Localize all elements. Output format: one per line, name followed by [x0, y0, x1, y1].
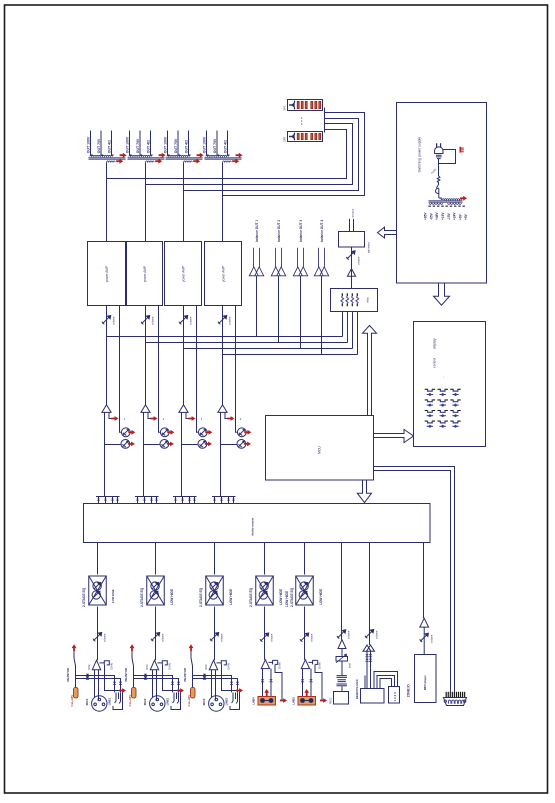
- svg-text:OUT 100V: OUT 100V: [125, 136, 129, 153]
- svg-text:LOW HIGE: LOW HIGE: [319, 589, 323, 605]
- svg-text:balance OUT 1: balance OUT 1: [255, 220, 259, 242]
- svg-text:power AMP: power AMP: [182, 266, 186, 282]
- svg-text:GAIN: GAIN: [227, 663, 231, 670]
- svg-text:LOW HIGE: LOW HIGE: [279, 589, 283, 605]
- svg-text:MCU: MCU: [318, 446, 322, 454]
- svg-text:volume: volume: [161, 633, 165, 642]
- svg-text:balance OUT 3: balance OUT 3: [299, 220, 303, 242]
- svg-text:volume: volume: [103, 633, 107, 642]
- svg-text:volume: volume: [151, 316, 155, 325]
- svg-text:2-STAGE EQ: 2-STAGE EQ: [290, 587, 294, 607]
- svg-text:volume: volume: [112, 316, 116, 325]
- svg-text:volume: volume: [375, 630, 379, 639]
- svg-text:MIC1: MIC1: [85, 698, 89, 705]
- svg-text:control: control: [432, 358, 436, 368]
- svg-text:OUT 70V: OUT 70V: [97, 138, 101, 153]
- svg-text:LINE5: LINE5: [292, 697, 296, 705]
- svg-text:LINE3: LINE3: [225, 697, 229, 705]
- svg-text:level: level: [349, 663, 352, 668]
- svg-text:CH+48V: CH+48V: [128, 694, 132, 707]
- svg-text:MBU: MBU: [146, 664, 149, 670]
- svg-text:volume: volume: [270, 633, 274, 642]
- svg-text:LOW HIGE: LOW HIGE: [229, 589, 233, 605]
- svg-text:PHANTOM: PHANTOM: [66, 667, 70, 681]
- svg-text:OUT 4Ω: OUT 4Ω: [184, 140, 188, 153]
- svg-text:GAIN: GAIN: [278, 662, 282, 669]
- svg-text:LOW HIGE: LOW HIGE: [111, 589, 115, 603]
- svg-text:power AMP: power AMP: [105, 266, 109, 282]
- svg-text:LOW HIGE: LOW HIGE: [170, 589, 174, 605]
- svg-text:SP OUT: SP OUT: [352, 208, 355, 217]
- svg-text:LINE2: LINE2: [166, 697, 170, 705]
- svg-text:2-STAGE EQ: 2-STAGE EQ: [199, 587, 203, 607]
- svg-text:display: display: [432, 338, 436, 349]
- svg-text:Switching power supply: Switching power supply: [417, 137, 421, 173]
- svg-text:volume: volume: [310, 633, 314, 642]
- svg-text:MIC2: MIC2: [143, 698, 147, 705]
- svg-text:+65V: +65V: [424, 212, 428, 220]
- svg-text:OUT 70V: OUT 70V: [213, 138, 217, 153]
- svg-text:relay: relay: [367, 297, 370, 303]
- svg-text:PAGE: PAGE: [329, 697, 332, 704]
- svg-text:OUT 100V: OUT 100V: [163, 136, 167, 153]
- svg-text:volume: volume: [189, 316, 193, 325]
- svg-text:SP1: SP1: [282, 105, 286, 110]
- svg-text:OUT 70V: OUT 70V: [136, 138, 140, 153]
- svg-text:Audio matrix: Audio matrix: [250, 517, 254, 536]
- svg-text:LINE4: LINE4: [252, 697, 256, 705]
- svg-text:1 2 3 4: 1 2 3 4: [393, 692, 397, 702]
- svg-text:MBU: MBU: [88, 664, 91, 670]
- svg-text:balance OUT 4: balance OUT 4: [320, 220, 324, 242]
- svg-text:power AMP: power AMP: [222, 266, 226, 282]
- svg-text:spk select: spk select: [368, 242, 371, 253]
- svg-text:MIC3: MIC3: [202, 698, 206, 705]
- svg-text:+15V: +15V: [441, 212, 445, 220]
- svg-text:CH+48V: CH+48V: [187, 694, 191, 707]
- svg-text:2-STAGE EQ: 2-STAGE EQ: [140, 587, 144, 607]
- svg-text:SP8: SP8: [282, 136, 286, 141]
- svg-text:LOW HIGE: LOW HIGE: [285, 591, 289, 607]
- svg-text:OUT 70V: OUT 70V: [174, 138, 178, 153]
- svg-text:-15V: -15V: [447, 212, 451, 220]
- svg-text:ZONE ID: ZONE ID: [406, 684, 410, 698]
- svg-text:OUT 4Ω: OUT 4Ω: [146, 140, 150, 153]
- svg-text:PHANTOM: PHANTOM: [183, 667, 187, 681]
- svg-text:MBU: MBU: [205, 664, 208, 670]
- svg-text:OUT 4Ω: OUT 4Ω: [223, 140, 227, 153]
- svg-text:CH+48V: CH+48V: [70, 694, 74, 707]
- svg-text:volume: volume: [430, 634, 434, 643]
- svg-text:+6V: +6V: [458, 213, 462, 220]
- svg-text:GAIN: GAIN: [168, 663, 172, 670]
- svg-text:+48V: +48V: [435, 212, 439, 220]
- svg-text:power AMP: power AMP: [143, 266, 147, 282]
- svg-text:volume: volume: [220, 633, 224, 642]
- svg-text:+24V: +24V: [453, 212, 457, 220]
- svg-text:volume: volume: [357, 256, 361, 265]
- svg-text:2-STAGE EQ: 2-STAGE EQ: [82, 587, 86, 607]
- svg-text:REMOTE M●C: REMOTE M●C: [355, 678, 359, 699]
- svg-text:LINE1: LINE1: [108, 697, 112, 705]
- svg-text:volume: volume: [347, 630, 351, 639]
- svg-text:OUT 4Ω: OUT 4Ω: [107, 140, 111, 153]
- svg-text:GAIN: GAIN: [318, 662, 322, 669]
- svg-text:-65V: -65V: [429, 212, 433, 220]
- svg-text:PHANTOM: PHANTOM: [124, 667, 128, 681]
- svg-text:2-STAGE EQ: 2-STAGE EQ: [249, 587, 253, 607]
- svg-text:MP3 player: MP3 player: [423, 674, 427, 690]
- svg-text:+9V: +9V: [464, 213, 468, 220]
- svg-text:balance OUT 2: balance OUT 2: [277, 220, 281, 242]
- svg-text:...: ...: [441, 376, 445, 379]
- svg-text:OUT 100V: OUT 100V: [202, 136, 206, 153]
- svg-text:OUT 100V: OUT 100V: [86, 136, 90, 153]
- svg-text:GAIN: GAIN: [110, 663, 114, 670]
- svg-text:volume: volume: [228, 316, 232, 325]
